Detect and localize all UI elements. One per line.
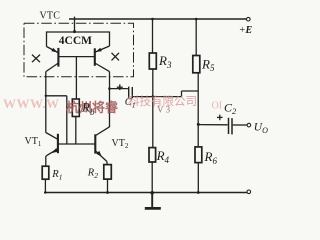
- X mark left: [32, 55, 40, 63]
- svg-text:+E: +E: [239, 25, 253, 36]
- resistor R3: [149, 53, 156, 69]
- wire branch down: [66, 96, 68, 144]
- wire R3 to R4: [152, 69, 154, 148]
- wire base tap down to Rb: [75, 57, 77, 99]
- wire stub above rail at feed: [74, 17, 76, 19]
- svg-text:V 3: V 3: [157, 105, 171, 115]
- node junction R6/rail: [197, 191, 200, 194]
- wire R5/R6 column: [197, 91, 199, 147]
- wire R5 bottom: [197, 73, 199, 91]
- transistor VT1 base bar: [57, 134, 59, 153]
- wire base join of 4CCM pair: [58, 56, 94, 58]
- ground symbol: [151, 193, 153, 208]
- resistor Rb: [72, 99, 79, 117]
- transistor VT2 base bar: [94, 134, 96, 153]
- wire 4CCM emitter bus: [47, 32, 110, 47]
- wire Rb bottom to base bus: [75, 117, 77, 145]
- transistor Q-left emitter lead: [47, 47, 58, 53]
- wire C2 to output: [233, 124, 247, 126]
- C1 polarity +: [117, 86, 123, 88]
- svg-text:4CCM: 4CCM: [59, 35, 92, 47]
- transistor Q-left emitter arrow: [51, 48, 57, 53]
- transistor VT1 emitter lead: [46, 149, 58, 156]
- resistor R2: [104, 165, 112, 180]
- transistor Q-left of 4CCM: base bar: [57, 48, 59, 67]
- transistor Q-right collector lead: [95, 63, 110, 72]
- node junction rail/R3 column: [151, 18, 154, 21]
- node junction ground/rail: [150, 191, 154, 195]
- svg-text:OI: OI: [212, 101, 223, 112]
- transistor Q-right emitter arrow: [96, 48, 102, 52]
- transistor VT1 emitter arrow: [52, 148, 58, 153]
- wire branch collector to base bus: [46, 95, 67, 97]
- wire left collector column: [45, 72, 47, 133]
- wire R1 to ground rail: [44, 179, 46, 192]
- wire to C2: [198, 124, 227, 126]
- C2 polarity +: [217, 116, 223, 118]
- svg-text:WWW.W: WWW.W: [3, 96, 60, 111]
- wire C1 to R3/R4 node: [133, 96, 182, 98]
- transistor Q-right emitter lead: [95, 46, 109, 52]
- wire right collector column: [109, 72, 111, 127]
- svg-text:VTC: VTC: [40, 11, 61, 22]
- transistor Q-right of 4CCM: base bar: [94, 48, 96, 66]
- wire jog R5 to C1 node: [182, 90, 199, 92]
- resistor R6: [195, 147, 202, 163]
- terminal bottom right: [247, 190, 251, 194]
- wire R5 column top: [195, 19, 197, 56]
- transistor VT1 collector lead: [46, 133, 58, 140]
- transistor VT2 emitter arrow: [96, 151, 102, 157]
- wire to C1: [110, 88, 128, 90]
- X mark right: [112, 53, 120, 61]
- node junction R3/R4/C1: [151, 95, 154, 98]
- transistor VT2 collector lead: [96, 127, 110, 136]
- wire R3 column top: [152, 19, 154, 53]
- capacitor C2 plates: [228, 118, 230, 134]
- wire feed from rail to 4CCM emitter bus: [74, 19, 76, 32]
- watermark band: [3, 94, 222, 115]
- resistor R4: [149, 148, 156, 162]
- node junction R1/rail: [44, 191, 46, 193]
- terminal +E: [247, 17, 251, 21]
- transistor VT2 emitter lead: [96, 151, 107, 161]
- wire R4 to ground rail: [151, 162, 153, 193]
- wire R2 to ground rail: [107, 179, 109, 192]
- resistor R5: [193, 56, 200, 73]
- terminal Uo: [247, 123, 251, 127]
- transistor Q-left collector lead: [46, 63, 59, 72]
- capacitor C1 plates: [128, 87, 130, 98]
- resistor R1: [42, 166, 49, 179]
- wire ground rail: [44, 192, 247, 194]
- node junction C2 tap: [197, 123, 200, 126]
- wire drop to C1 wire: [181, 91, 183, 97]
- node junction rail/R5 column: [195, 18, 198, 21]
- node junction branch: [45, 95, 47, 97]
- node junction feed/emitter bus: [73, 30, 76, 33]
- node junction C1 tap: [108, 87, 111, 90]
- wire VT2 emitter to R2: [106, 161, 108, 164]
- node junction R2/rail: [106, 191, 109, 194]
- wire R6 to ground rail: [197, 163, 199, 193]
- chain-line package boundary box VTC: [24, 23, 134, 77]
- wire VT1/VT2 base bus: [58, 143, 95, 145]
- wire VT1 emitter to R1: [45, 156, 47, 166]
- wire +E top supply rail: [69, 18, 246, 20]
